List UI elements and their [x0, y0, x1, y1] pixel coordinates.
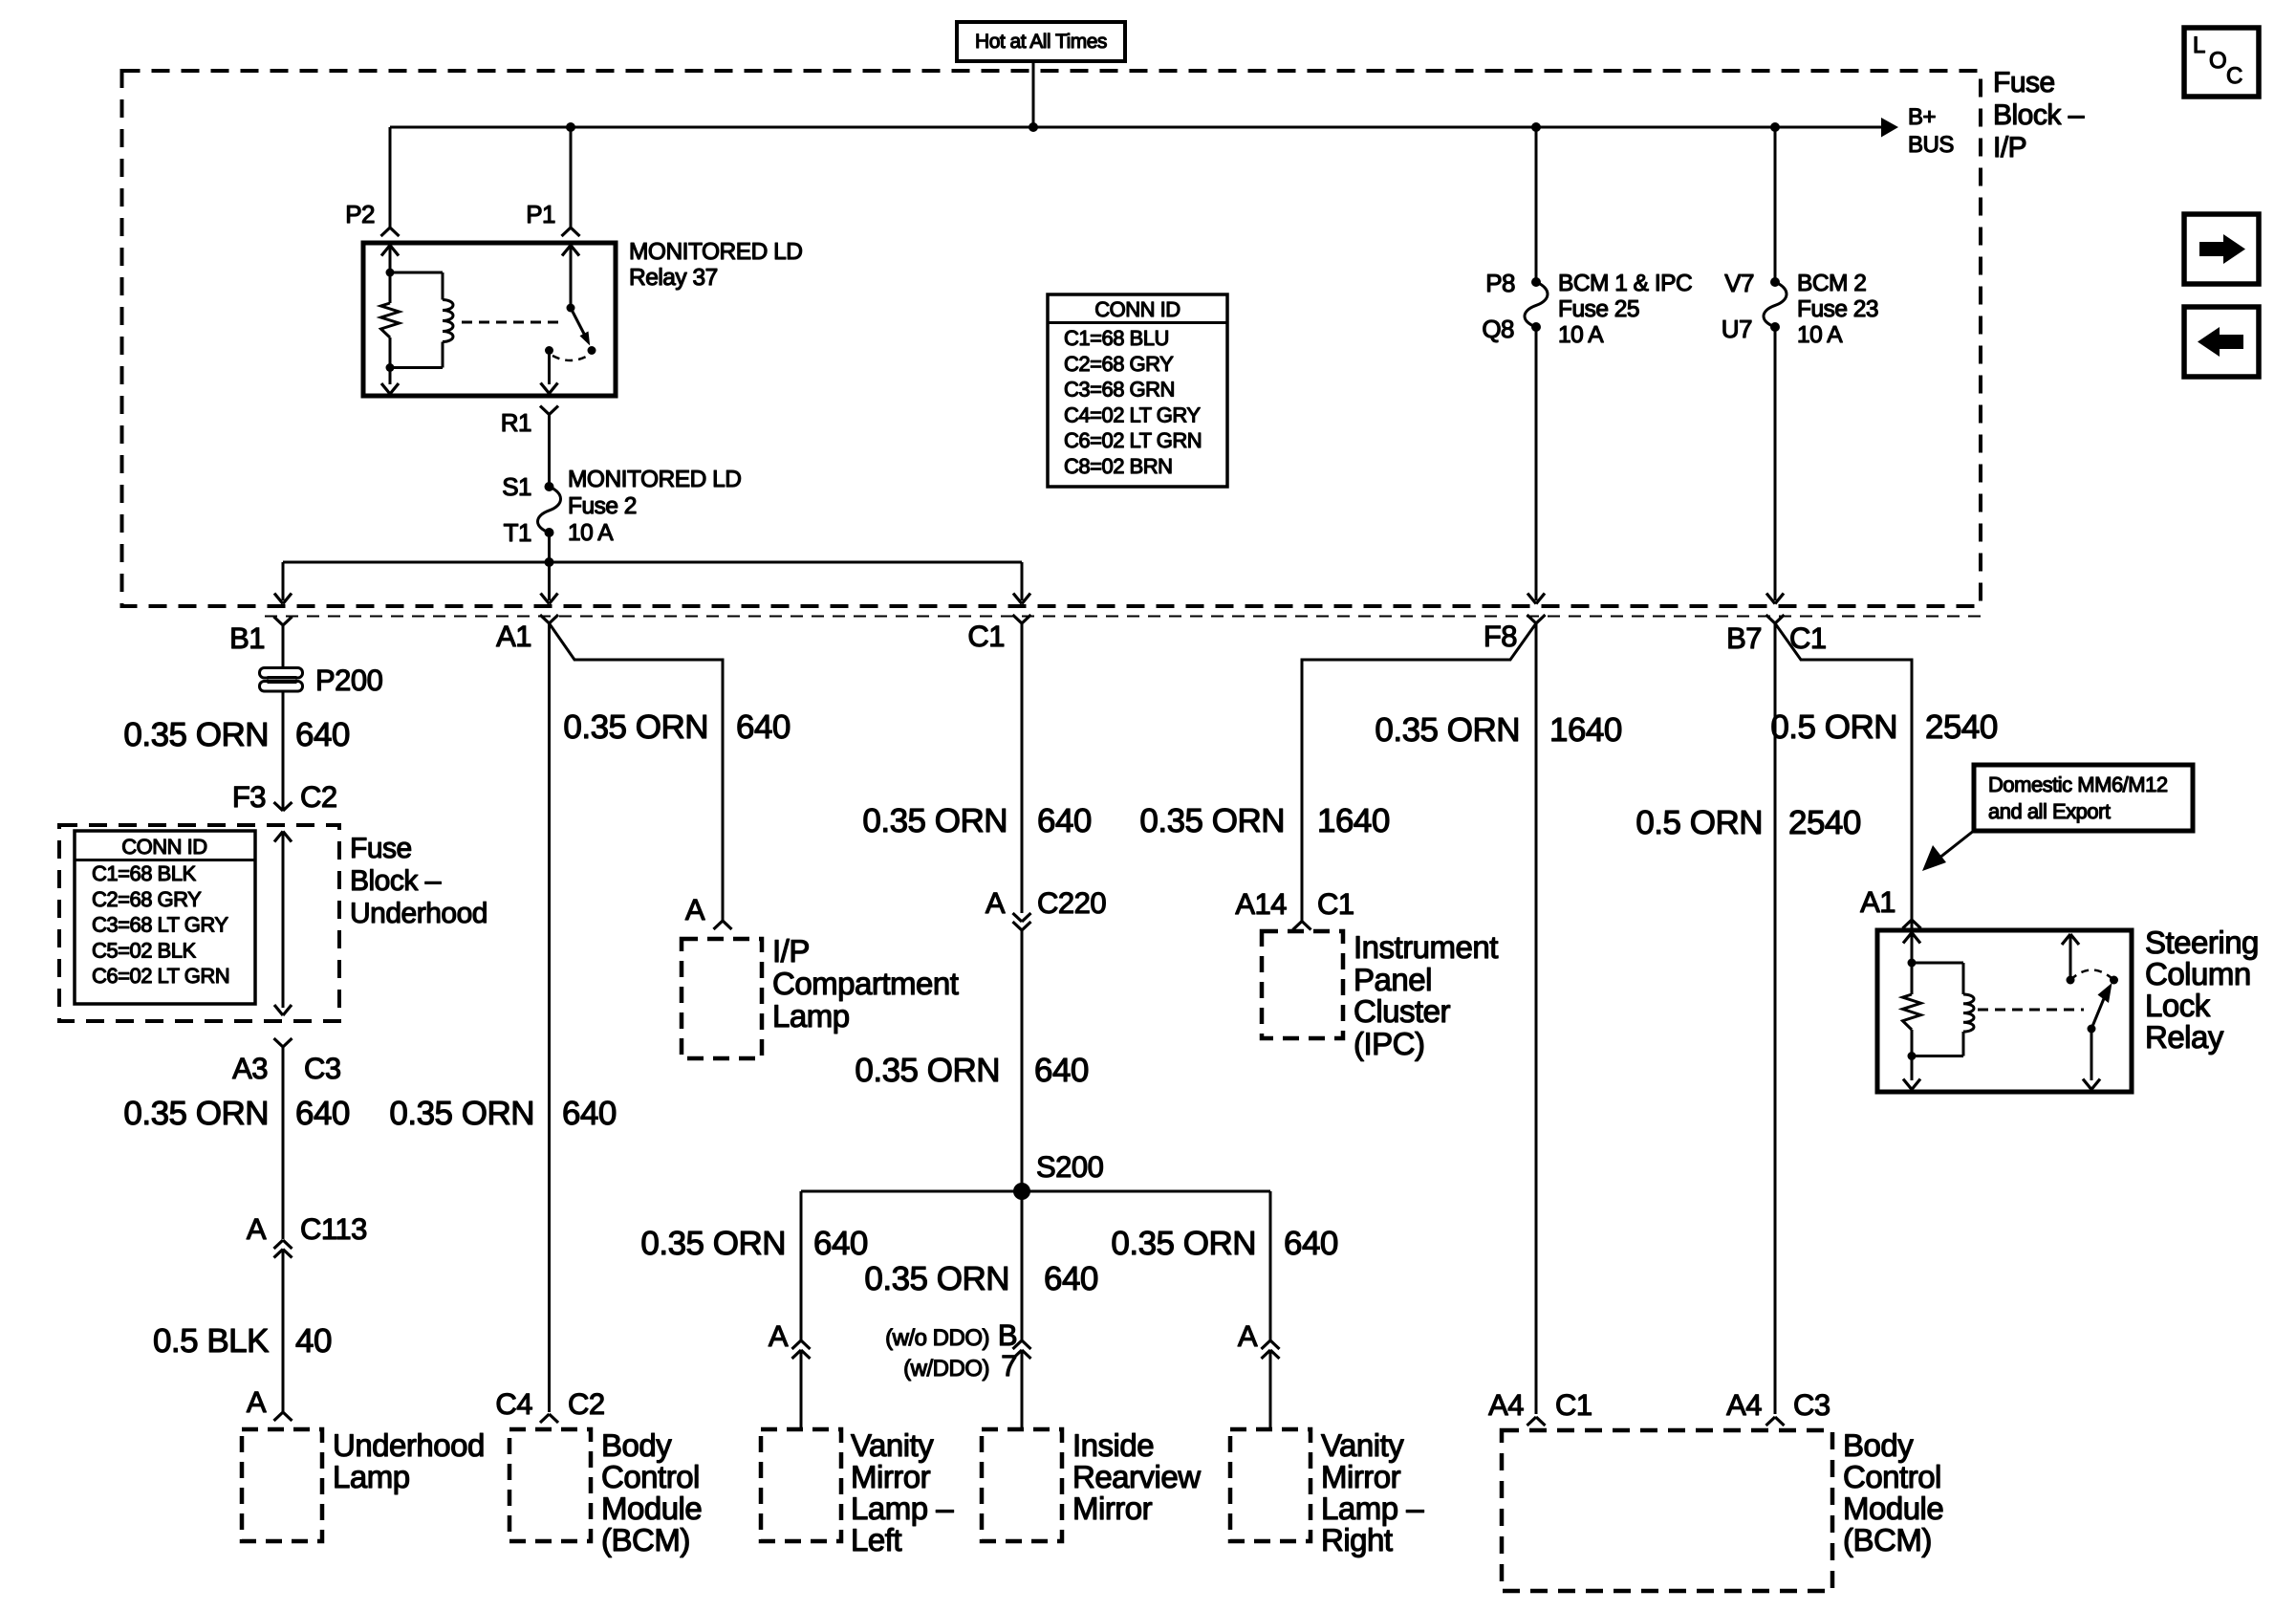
- svg-text:10 A: 10 A: [1797, 322, 1843, 348]
- svg-text:S1: S1: [502, 472, 531, 501]
- svg-text:0.35 ORN: 0.35 ORN: [563, 708, 708, 746]
- svg-text:I/P: I/P: [772, 933, 810, 969]
- svg-text:C2: C2: [568, 1387, 605, 1421]
- svg-text:640: 640: [1037, 802, 1092, 839]
- svg-text:40: 40: [295, 1322, 332, 1360]
- svg-text:C2: C2: [300, 780, 337, 814]
- svg-text:0.35 ORN: 0.35 ORN: [864, 1260, 1009, 1297]
- svg-text:0.5 ORN: 0.5 ORN: [1770, 708, 1897, 746]
- svg-text:0.5 BLK: 0.5 BLK: [153, 1322, 269, 1360]
- svg-text:0.35 ORN: 0.35 ORN: [855, 1052, 1000, 1089]
- svg-text:and all Export: and all Export: [1988, 799, 2111, 823]
- svg-text:0.35 ORN: 0.35 ORN: [862, 802, 1007, 839]
- svg-text:C2=68 GRY: C2=68 GRY: [92, 887, 202, 911]
- svg-text:2540: 2540: [1788, 804, 1861, 841]
- svg-text:Lamp –: Lamp –: [1321, 1491, 1424, 1526]
- svg-text:2540: 2540: [1925, 708, 1998, 746]
- svg-text:Right: Right: [1321, 1522, 1393, 1557]
- svg-text:C1=68 BLK: C1=68 BLK: [92, 861, 196, 885]
- svg-text:(BCM): (BCM): [601, 1522, 690, 1557]
- svg-text:Lock: Lock: [2145, 988, 2211, 1023]
- svg-text:MONITORED LD: MONITORED LD: [629, 239, 802, 265]
- svg-text:Compartment: Compartment: [772, 966, 959, 1001]
- svg-text:Steering: Steering: [2145, 925, 2259, 960]
- svg-text:Fuse 25: Fuse 25: [1558, 296, 1639, 322]
- svg-text:1640: 1640: [1549, 711, 1622, 749]
- svg-text:Fuse 2: Fuse 2: [568, 493, 637, 519]
- svg-text:Fuse: Fuse: [1993, 67, 2055, 98]
- svg-text:A14: A14: [1235, 887, 1287, 921]
- svg-text:640: 640: [1044, 1260, 1098, 1297]
- svg-text:CONN ID: CONN ID: [1094, 297, 1180, 321]
- svg-text:A: A: [247, 1385, 267, 1419]
- svg-text:A4: A4: [1488, 1388, 1524, 1422]
- svg-text:B1: B1: [229, 621, 265, 655]
- svg-text:Left: Left: [851, 1522, 901, 1557]
- svg-text:V7: V7: [1724, 269, 1754, 297]
- svg-text:C3=68 LT GRY: C3=68 LT GRY: [92, 913, 228, 937]
- svg-text:640: 640: [295, 1095, 350, 1132]
- svg-text:Mirror: Mirror: [851, 1459, 931, 1494]
- svg-text:0.35 ORN: 0.35 ORN: [1111, 1225, 1256, 1262]
- svg-text:Panel: Panel: [1354, 962, 1432, 997]
- svg-text:Control: Control: [601, 1459, 700, 1494]
- svg-text:Block –: Block –: [350, 865, 442, 897]
- svg-text:O: O: [2209, 48, 2226, 74]
- svg-text:Relay 37: Relay 37: [629, 265, 718, 291]
- svg-text:C113: C113: [300, 1212, 367, 1246]
- svg-text:(IPC): (IPC): [1354, 1026, 1425, 1061]
- svg-text:P2: P2: [345, 200, 375, 229]
- svg-text:C1: C1: [967, 620, 1005, 653]
- svg-text:10 A: 10 A: [1558, 322, 1604, 348]
- svg-text:BCM 2: BCM 2: [1797, 271, 1866, 296]
- svg-text:A: A: [685, 893, 705, 926]
- svg-text:A: A: [986, 886, 1006, 920]
- svg-text:Inside: Inside: [1072, 1427, 1154, 1463]
- svg-text:BUS: BUS: [1908, 132, 1954, 158]
- svg-text:Mirror: Mirror: [1072, 1491, 1153, 1526]
- svg-text:B: B: [998, 1318, 1017, 1352]
- svg-text:A3: A3: [232, 1052, 268, 1085]
- svg-text:640: 640: [736, 708, 791, 746]
- svg-text:Fuse: Fuse: [350, 833, 412, 864]
- svg-text:Body: Body: [601, 1427, 672, 1463]
- svg-text:Module: Module: [601, 1491, 702, 1526]
- svg-text:F3: F3: [232, 780, 266, 814]
- svg-text:(w/DDO): (w/DDO): [903, 1356, 989, 1382]
- svg-text:P8: P8: [1485, 269, 1515, 297]
- svg-text:0.35 ORN: 0.35 ORN: [1375, 711, 1520, 749]
- svg-text:A4: A4: [1726, 1388, 1762, 1422]
- svg-text:640: 640: [295, 716, 350, 753]
- svg-text:C2=68 GRY: C2=68 GRY: [1064, 352, 1174, 376]
- svg-text:0.35 ORN: 0.35 ORN: [640, 1225, 786, 1262]
- svg-text:C3: C3: [304, 1052, 341, 1085]
- svg-text:A: A: [769, 1319, 789, 1353]
- svg-text:0.5 ORN: 0.5 ORN: [1635, 804, 1763, 841]
- svg-text:Lamp: Lamp: [333, 1459, 410, 1494]
- svg-text:Vanity: Vanity: [851, 1427, 934, 1463]
- svg-text:Underhood: Underhood: [350, 898, 487, 929]
- svg-text:(BCM): (BCM): [1843, 1522, 1932, 1557]
- svg-text:0.35 ORN: 0.35 ORN: [1139, 802, 1285, 839]
- svg-text:I/P: I/P: [1993, 132, 2026, 163]
- svg-text:Vanity: Vanity: [1321, 1427, 1404, 1463]
- svg-text:F8: F8: [1484, 620, 1517, 653]
- svg-text:Column: Column: [2145, 956, 2251, 991]
- svg-text:U7: U7: [1722, 315, 1752, 343]
- svg-text:C6=02 LT GRN: C6=02 LT GRN: [1064, 428, 1202, 452]
- svg-text:P200: P200: [315, 664, 383, 697]
- svg-text:C1: C1: [1317, 887, 1354, 921]
- svg-text:A1: A1: [496, 620, 531, 653]
- svg-text:Lamp: Lamp: [772, 998, 850, 1034]
- svg-text:640: 640: [1034, 1052, 1089, 1089]
- svg-text:1640: 1640: [1317, 802, 1390, 839]
- svg-text:Cluster: Cluster: [1354, 993, 1451, 1029]
- svg-text:A: A: [247, 1212, 267, 1246]
- svg-text:Q8: Q8: [1482, 315, 1514, 343]
- svg-text:0.35 ORN: 0.35 ORN: [123, 716, 269, 753]
- svg-text:(w/o DDO): (w/o DDO): [885, 1325, 989, 1351]
- svg-text:640: 640: [562, 1095, 617, 1132]
- svg-text:C4: C4: [495, 1387, 532, 1421]
- svg-text:B7: B7: [1726, 621, 1762, 655]
- svg-text:C3=68 GRN: C3=68 GRN: [1064, 378, 1175, 402]
- svg-text:C220: C220: [1037, 886, 1106, 920]
- svg-text:R1: R1: [501, 408, 531, 437]
- svg-text:Underhood: Underhood: [333, 1427, 485, 1463]
- svg-text:Relay: Relay: [2145, 1019, 2224, 1055]
- svg-text:MONITORED LD: MONITORED LD: [568, 467, 741, 492]
- svg-text:Hot at All Times: Hot at All Times: [975, 31, 1107, 53]
- svg-text:C3: C3: [1793, 1388, 1830, 1422]
- svg-text:Control: Control: [1843, 1459, 1941, 1494]
- svg-text:L: L: [2193, 33, 2205, 58]
- svg-text:7: 7: [1001, 1349, 1017, 1382]
- svg-text:A: A: [1238, 1319, 1258, 1353]
- svg-text:C1=68 BLU: C1=68 BLU: [1064, 326, 1169, 350]
- svg-text:0.35 ORN: 0.35 ORN: [123, 1095, 269, 1132]
- svg-text:640: 640: [1284, 1225, 1338, 1262]
- svg-text:Fuse 23: Fuse 23: [1797, 296, 1878, 322]
- svg-text:A1: A1: [1860, 885, 1895, 919]
- svg-text:B+: B+: [1908, 104, 1936, 130]
- svg-text:Module: Module: [1843, 1491, 1943, 1526]
- svg-text:Instrument: Instrument: [1354, 929, 1498, 965]
- svg-text:C6=02 LT GRN: C6=02 LT GRN: [92, 964, 229, 988]
- svg-text:CONN ID: CONN ID: [121, 835, 206, 859]
- svg-text:10 A: 10 A: [568, 520, 614, 546]
- svg-text:T1: T1: [504, 518, 531, 547]
- svg-text:C8=02 BRN: C8=02 BRN: [1064, 454, 1173, 478]
- svg-text:BCM 1 & IPC: BCM 1 & IPC: [1558, 271, 1692, 296]
- svg-text:C1: C1: [1555, 1388, 1592, 1422]
- svg-text:C4=02 LT GRY: C4=02 LT GRY: [1064, 403, 1201, 426]
- svg-text:Domestic MM6/M12: Domestic MM6/M12: [1988, 773, 2168, 796]
- svg-text:Lamp –: Lamp –: [851, 1491, 954, 1526]
- svg-text:Rearview: Rearview: [1072, 1459, 1201, 1494]
- svg-text:P1: P1: [526, 200, 555, 229]
- svg-text:S200: S200: [1036, 1150, 1104, 1184]
- svg-text:Mirror: Mirror: [1321, 1459, 1401, 1494]
- svg-text:C: C: [2226, 63, 2242, 89]
- svg-text:Body: Body: [1843, 1427, 1914, 1463]
- svg-text:0.35 ORN: 0.35 ORN: [389, 1095, 534, 1132]
- svg-text:Block –: Block –: [1993, 99, 2085, 131]
- svg-text:640: 640: [813, 1225, 868, 1262]
- svg-text:C5=02 BLK: C5=02 BLK: [92, 938, 196, 962]
